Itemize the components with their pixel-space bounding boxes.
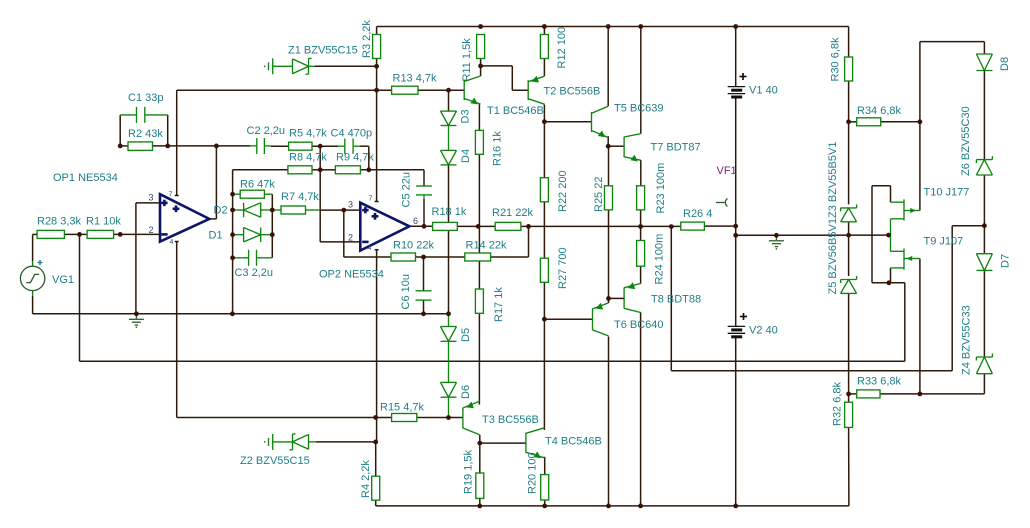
wire R8 row bbox=[233, 169, 321, 171]
wire T4 emitter to R20 bbox=[544, 457, 546, 506]
transistor T2 BC556B bbox=[528, 76, 600, 104]
JFET T9 J107 bbox=[891, 236, 964, 270]
resistor R20 bbox=[527, 452, 549, 500]
wire T7 collector to top rail bbox=[640, 27, 642, 134]
wire inverting input column x320 bbox=[319, 146, 321, 242]
wire R32 column bbox=[848, 394, 850, 506]
svg-text:7: 7 bbox=[369, 196, 373, 203]
wire right column D7 to Z4 bbox=[983, 270, 985, 357]
diode D2 bbox=[214, 203, 261, 217]
wire clamp right rail x272 bbox=[271, 194, 273, 258]
svg-text:D3: D3 bbox=[460, 109, 472, 123]
svg-text:R8 4,7k: R8 4,7k bbox=[289, 152, 327, 164]
svg-text:R22 200: R22 200 bbox=[557, 170, 569, 212]
battery V2 bbox=[728, 313, 778, 337]
wire T8 collector to bottom rail bbox=[640, 312, 642, 506]
wire VG1 bottom to ground rail bbox=[32, 291, 34, 314]
svg-text:3: 3 bbox=[348, 200, 353, 210]
wire D2 leads bbox=[233, 209, 273, 211]
op-amp OP1 NE5534 bbox=[53, 172, 209, 246]
wire output node down x671 and feedback lower row bbox=[671, 227, 952, 371]
resistor R32 bbox=[832, 381, 853, 427]
wire Z5 down to R33 node bbox=[848, 293, 850, 394]
wire R3 bottom / Z1 / R13 column down to OP2 pin7 bbox=[375, 59, 379, 202]
wire R15 row from OP1 pin4 bbox=[177, 242, 392, 418]
wire feedback row y146 left bbox=[120, 145, 128, 147]
svg-text:2: 2 bbox=[348, 233, 353, 243]
wire OP1 output up to feedback node bbox=[209, 146, 216, 219]
resistor R13 bbox=[392, 73, 437, 95]
capacitor C5 bbox=[401, 172, 433, 207]
svg-text:R24 100m: R24 100m bbox=[654, 234, 666, 285]
svg-text:R21 22k: R21 22k bbox=[492, 207, 533, 219]
wire top positive rail bbox=[377, 26, 849, 28]
svg-text:R4 2,2k: R4 2,2k bbox=[360, 460, 372, 498]
svg-text:3: 3 bbox=[149, 193, 154, 203]
svg-text:R7 4,7k: R7 4,7k bbox=[281, 191, 319, 203]
wire R6 leads bbox=[233, 193, 273, 195]
transistor T7 BDT87 bbox=[624, 134, 701, 162]
wire T3 collector row to T4 base bbox=[480, 442, 526, 444]
wire C1 leads bbox=[120, 114, 168, 116]
resistor R15 bbox=[380, 402, 425, 422]
voltage probe VF1 bbox=[716, 165, 737, 206]
wire V1 top bbox=[735, 27, 737, 87]
svg-text:7: 7 bbox=[169, 192, 173, 199]
wire OP2 pin3 node down to R10 bbox=[344, 210, 391, 257]
wire T5 emitter to T7 base node bbox=[607, 136, 609, 146]
diode D6 bbox=[441, 382, 473, 399]
resistor R4 bbox=[360, 460, 380, 501]
svg-text:VF1: VF1 bbox=[717, 165, 737, 177]
svg-text:R2 43k: R2 43k bbox=[128, 128, 163, 140]
svg-text:R13 4,7k: R13 4,7k bbox=[393, 73, 438, 85]
svg-text:D7: D7 bbox=[1000, 254, 1012, 268]
resistor R26 bbox=[681, 208, 713, 230]
wire OP2 pin4 column down to Z2 row bbox=[375, 250, 379, 442]
svg-text:T10 J177: T10 J177 bbox=[924, 187, 970, 199]
wire D5 D6 column bbox=[448, 314, 450, 418]
transistor T3 BC556B bbox=[463, 401, 539, 435]
resistor R1 bbox=[86, 216, 121, 239]
svg-text:C6 10u: C6 10u bbox=[400, 274, 412, 309]
transistor T8 BDT88 bbox=[624, 282, 701, 312]
wire R30 top corner bbox=[848, 27, 850, 58]
svg-text:D4: D4 bbox=[460, 149, 472, 163]
clamp resistor R6 bbox=[240, 179, 275, 199]
wire x952 up to zener mid node bbox=[952, 226, 984, 371]
resistor R21 bbox=[492, 207, 533, 230]
wire R13 to T1 base bbox=[418, 89, 464, 91]
resistor R12 bbox=[540, 27, 568, 69]
wire output row R21 to R26 bbox=[521, 225, 681, 227]
svg-text:V1 40: V1 40 bbox=[749, 85, 778, 97]
svg-text:R10 22k: R10 22k bbox=[393, 240, 434, 252]
JFET T10 J177 bbox=[891, 187, 970, 221]
wire R14 right bend up to output row bbox=[491, 226, 529, 257]
wire R34 node to Z3 bbox=[848, 122, 850, 205]
resistor R34 bbox=[857, 105, 902, 126]
svg-text:R32 6,8k: R32 6,8k bbox=[832, 381, 844, 426]
wire T10 gate up to R34 node bbox=[919, 122, 921, 211]
svg-text:D5: D5 bbox=[460, 328, 472, 342]
wire T2 collector rail down through R22 R27 to T4 collector bbox=[543, 122, 545, 430]
resistor R2 bbox=[128, 128, 163, 150]
wire right column Z4 to R33 row bbox=[983, 374, 985, 394]
wire FET left loop x872 bbox=[872, 186, 891, 283]
svg-text:R23 100m: R23 100m bbox=[655, 163, 667, 214]
wire OP2 pin2 row bbox=[320, 241, 360, 243]
wire V2 bottom to bottom rail bbox=[735, 337, 737, 506]
resistor R22 bbox=[540, 170, 569, 212]
wire mid node to V2 top bbox=[735, 235, 737, 326]
wire right column Z6 to D7 bbox=[983, 175, 985, 254]
svg-text:T8 BDT88: T8 BDT88 bbox=[651, 294, 701, 306]
wire right column x984 top bbox=[983, 42, 985, 55]
resistor R16 bbox=[475, 130, 503, 166]
wire output row R26 to supply mid node bbox=[704, 225, 735, 227]
svg-text:Z1 BZV55C15: Z1 BZV55C15 bbox=[288, 45, 358, 57]
svg-text:D6: D6 bbox=[460, 385, 472, 399]
svg-text:R16 1k: R16 1k bbox=[492, 131, 504, 166]
svg-text:OP2 NE5534: OP2 NE5534 bbox=[319, 269, 384, 281]
wire R13 row left segment bbox=[177, 89, 392, 91]
svg-text:T5 BC639: T5 BC639 bbox=[614, 103, 664, 115]
wire C1 left vertical bbox=[119, 115, 121, 146]
wire VG1 top to R28 bbox=[33, 234, 38, 266]
resistor R24 bbox=[637, 234, 666, 285]
wire T7 emitter to R23 bbox=[640, 160, 642, 186]
wire T3 collector down to R19 node bbox=[479, 435, 481, 443]
svg-text:R25 22: R25 22 bbox=[593, 177, 605, 212]
wire T5 collector to top rail bbox=[607, 27, 609, 107]
svg-text:C3 2,2u: C3 2,2u bbox=[235, 267, 274, 279]
svg-text:R11 1,5k: R11 1,5k bbox=[461, 38, 473, 82]
resistor R9 bbox=[335, 152, 374, 174]
resistor R5 bbox=[289, 128, 328, 151]
wire R4 column bbox=[375, 442, 377, 506]
svg-text:T4 BC546B: T4 BC546B bbox=[545, 436, 602, 448]
svg-text:R27 700: R27 700 bbox=[557, 247, 569, 289]
svg-text:4: 4 bbox=[170, 239, 174, 246]
wire R12 column and T2 arms bbox=[543, 27, 545, 122]
op-amp OP2 NE5534 bbox=[319, 196, 418, 281]
zener Z6 BZV55C30 bbox=[960, 106, 992, 176]
svg-text:R6 47k: R6 47k bbox=[240, 179, 275, 191]
wire R28 R1 row bbox=[64, 233, 87, 235]
capacitor C6 bbox=[400, 274, 432, 309]
resistor R28 bbox=[37, 216, 82, 239]
svg-text:T2 BC556B: T2 BC556B bbox=[544, 85, 601, 97]
resistor R25 bbox=[593, 177, 613, 212]
svg-text:R33 6,8k: R33 6,8k bbox=[857, 376, 902, 388]
svg-text:Z3 BZV55B5V1: Z3 BZV55B5V1 bbox=[827, 142, 839, 218]
svg-text:R30 6,8k: R30 6,8k bbox=[830, 37, 842, 82]
wire right column D8 to Z6 bbox=[983, 71, 985, 160]
wire T1 collector to T2 base bbox=[481, 66, 529, 90]
svg-text:Z4 BZV55C33: Z4 BZV55C33 bbox=[961, 305, 973, 375]
wire T9 drain up to ground row bbox=[890, 235, 892, 251]
wire T10 source down to ground row bbox=[890, 219, 892, 235]
wire R3 top to rail bbox=[376, 27, 378, 35]
wire Z3 to ground row node bbox=[848, 222, 850, 235]
wire Z1 row to column bbox=[315, 65, 377, 67]
wire T7 base bbox=[609, 145, 624, 147]
wire R7 row to OP2 pin3 bbox=[272, 209, 360, 211]
resistor R11 bbox=[461, 35, 485, 82]
transistor T5 BC639 bbox=[592, 103, 664, 138]
wire supply mid segment bbox=[735, 226, 737, 235]
wire T9 source down to y282 node bbox=[890, 268, 892, 283]
diode D5 bbox=[441, 327, 473, 343]
wire FET source node row y282 bbox=[872, 282, 905, 284]
resistor R8 bbox=[288, 152, 328, 174]
wire C3 leads bbox=[233, 257, 273, 259]
svg-text:Z6 BZV55C30: Z6 BZV55C30 bbox=[960, 106, 972, 176]
wire R24 to T8 emitter bbox=[640, 266, 642, 283]
wire T6 emitter to node bbox=[608, 298, 610, 303]
capacitor C1 bbox=[128, 92, 163, 123]
wire C2 to R5 bbox=[264, 145, 288, 147]
diode D3 bbox=[441, 109, 472, 125]
wire x904 up to FET source node bbox=[904, 283, 906, 362]
wire output row R18 to R21 bbox=[457, 225, 495, 227]
wire T8 base bbox=[609, 297, 625, 299]
resistor R18 bbox=[432, 206, 467, 230]
svg-text:R3 2,2k: R3 2,2k bbox=[361, 20, 373, 58]
svg-text:T6 BC640: T6 BC640 bbox=[614, 319, 664, 331]
zener Z4 BZV55C33 bbox=[961, 305, 993, 375]
wire C6 column bbox=[423, 257, 425, 314]
resistor R7 bbox=[281, 191, 319, 214]
svg-text:D2: D2 bbox=[214, 205, 228, 217]
wire OP1 pin3 row and ground drop bbox=[136, 203, 159, 314]
svg-text:OP1 NE5534: OP1 NE5534 bbox=[53, 172, 118, 184]
svg-text:VG1: VG1 bbox=[52, 274, 74, 286]
diode D4 bbox=[441, 149, 473, 165]
wire R25 column bbox=[608, 146, 610, 298]
diode D8 bbox=[976, 54, 1011, 71]
wire feedback row y146 mid bbox=[153, 145, 257, 147]
wire T10 drain bend bbox=[890, 186, 892, 203]
resistor R30 bbox=[830, 37, 853, 82]
svg-text:T3 BC556B: T3 BC556B bbox=[482, 414, 539, 426]
ground at supply midpoint bbox=[769, 235, 784, 249]
wire R27 node to T6 base bbox=[544, 318, 592, 320]
wire R10 R14 row bbox=[416, 256, 465, 258]
wire R9 row and to C5 bend bbox=[320, 170, 424, 186]
zener Z2 BZV55C15 with jumper terminal bbox=[240, 434, 316, 467]
diode D7 bbox=[976, 254, 1011, 271]
resistor R23 bbox=[637, 163, 667, 214]
transistor T1 BC546B bbox=[464, 76, 544, 117]
diode D1 bbox=[209, 228, 261, 242]
svg-text:C4 470p: C4 470p bbox=[331, 128, 373, 140]
svg-text:C1 33p: C1 33p bbox=[128, 92, 163, 104]
wire R19 column bbox=[479, 443, 481, 506]
wire D1 leads bbox=[233, 234, 273, 236]
wire output row OP2 to R18 bbox=[409, 225, 432, 227]
svg-text:D8: D8 bbox=[999, 57, 1011, 71]
svg-text:R17 1k: R17 1k bbox=[493, 287, 505, 322]
wire R5 right to C4 node bbox=[312, 145, 320, 147]
svg-text:V2 40: V2 40 bbox=[749, 325, 778, 337]
wire ground row right of supply bbox=[736, 234, 889, 236]
voltage source VG1 bbox=[20, 260, 74, 291]
wire T2 collector to T5 base bbox=[544, 121, 591, 123]
svg-text:R15 4,7k: R15 4,7k bbox=[380, 402, 425, 414]
zener Z3 BZV55B5V1 bbox=[827, 142, 857, 222]
svg-text:R12 100: R12 100 bbox=[556, 27, 568, 69]
svg-text:R9 4,7k: R9 4,7k bbox=[336, 152, 374, 164]
wire ground rail y313 bbox=[33, 313, 449, 315]
wire T6 collector to bottom rail bbox=[608, 337, 610, 506]
wire R28 junction down to feedback row bbox=[79, 234, 81, 361]
wire R23 R24 column at output row bbox=[640, 210, 642, 241]
svg-text:Z5 BZV56B5V1: Z5 BZV56B5V1 bbox=[827, 218, 839, 294]
svg-text:R28 3,3k: R28 3,3k bbox=[37, 216, 82, 228]
wire bottom negative rail bbox=[376, 505, 849, 507]
wire R34 node up and over to right column bbox=[920, 42, 985, 122]
ground at input bbox=[129, 314, 144, 328]
resistor R17 bbox=[475, 287, 505, 322]
wire C1 right vertical bbox=[167, 115, 169, 146]
wire R16 R17 driver column x479 bbox=[478, 104, 480, 405]
wire R1 to OP1 pin2 node bbox=[114, 233, 121, 235]
wire OP1 pin7 vertical bbox=[175, 90, 179, 195]
svg-text:C5 22u: C5 22u bbox=[401, 172, 413, 207]
svg-text:R18 1k: R18 1k bbox=[432, 206, 467, 218]
wire D3 D4 column bbox=[448, 90, 450, 314]
wire R30 bottom to R34 node bbox=[848, 81, 850, 122]
svg-text:T1 BC546B: T1 BC546B bbox=[487, 105, 544, 117]
svg-text:T9 J107: T9 J107 bbox=[924, 236, 964, 248]
svg-text:4: 4 bbox=[368, 245, 372, 252]
resistor R27 bbox=[540, 247, 569, 289]
battery V1 bbox=[728, 73, 778, 97]
resistor R3 bbox=[361, 20, 381, 59]
svg-text:R19 1,5k: R19 1,5k bbox=[463, 449, 475, 494]
zener Z1 BZV55C15 with jumper terminal bbox=[264, 45, 358, 75]
svg-text:R34 6,8k: R34 6,8k bbox=[857, 105, 902, 117]
wire Z2 row to OP2 pin4 column bbox=[316, 441, 376, 443]
svg-text:R1 10k: R1 10k bbox=[86, 216, 121, 228]
svg-text:Z2 BZV55C15: Z2 BZV55C15 bbox=[240, 455, 310, 467]
resistor R19 bbox=[463, 449, 484, 498]
svg-text:R5 4,7k: R5 4,7k bbox=[289, 128, 327, 140]
wire C4 leads and right bend bbox=[320, 146, 369, 170]
svg-text:6: 6 bbox=[413, 216, 418, 226]
resistor R14 bbox=[465, 240, 507, 262]
transistor T6 BC640 bbox=[593, 303, 664, 336]
wire C5 bottom to output row bbox=[423, 195, 425, 226]
svg-text:D1: D1 bbox=[209, 230, 223, 242]
svg-text:2: 2 bbox=[149, 225, 154, 235]
svg-text:R26 4: R26 4 bbox=[683, 208, 712, 220]
wire T9 gate down to R33 node bbox=[919, 259, 921, 394]
transistor T4 BC546B bbox=[526, 428, 602, 458]
wire clamp left rail x232 bbox=[232, 170, 234, 314]
capacitor C4 bbox=[331, 128, 373, 154]
wire V1 bottom to output node bbox=[735, 97, 737, 226]
svg-text:C2 2,2u: C2 2,2u bbox=[247, 125, 286, 137]
wire long feedback row y361 bbox=[80, 360, 905, 362]
resistor R10 bbox=[391, 240, 434, 262]
wire OP1 pin4 column top bbox=[175, 241, 179, 243]
wire R33 row bbox=[849, 393, 985, 395]
zener Z5 BZV55B5V1 bbox=[827, 218, 857, 294]
resistor R33 bbox=[857, 376, 902, 398]
wire OP1 pin2 row bbox=[120, 233, 159, 235]
capacitor C3 bbox=[235, 250, 274, 279]
svg-text:R14 22k: R14 22k bbox=[466, 240, 507, 252]
wire R15 to D6 T3 node bbox=[417, 417, 463, 419]
capacitor C2 bbox=[247, 125, 286, 154]
wire ground row node to Z5 bbox=[848, 235, 850, 276]
svg-text:T7 BDT87: T7 BDT87 bbox=[651, 142, 701, 154]
wire R34 row bbox=[849, 121, 920, 123]
wire R11 bottom to T1 collector node bbox=[480, 59, 482, 77]
svg-text:R20 100: R20 100 bbox=[527, 452, 539, 494]
